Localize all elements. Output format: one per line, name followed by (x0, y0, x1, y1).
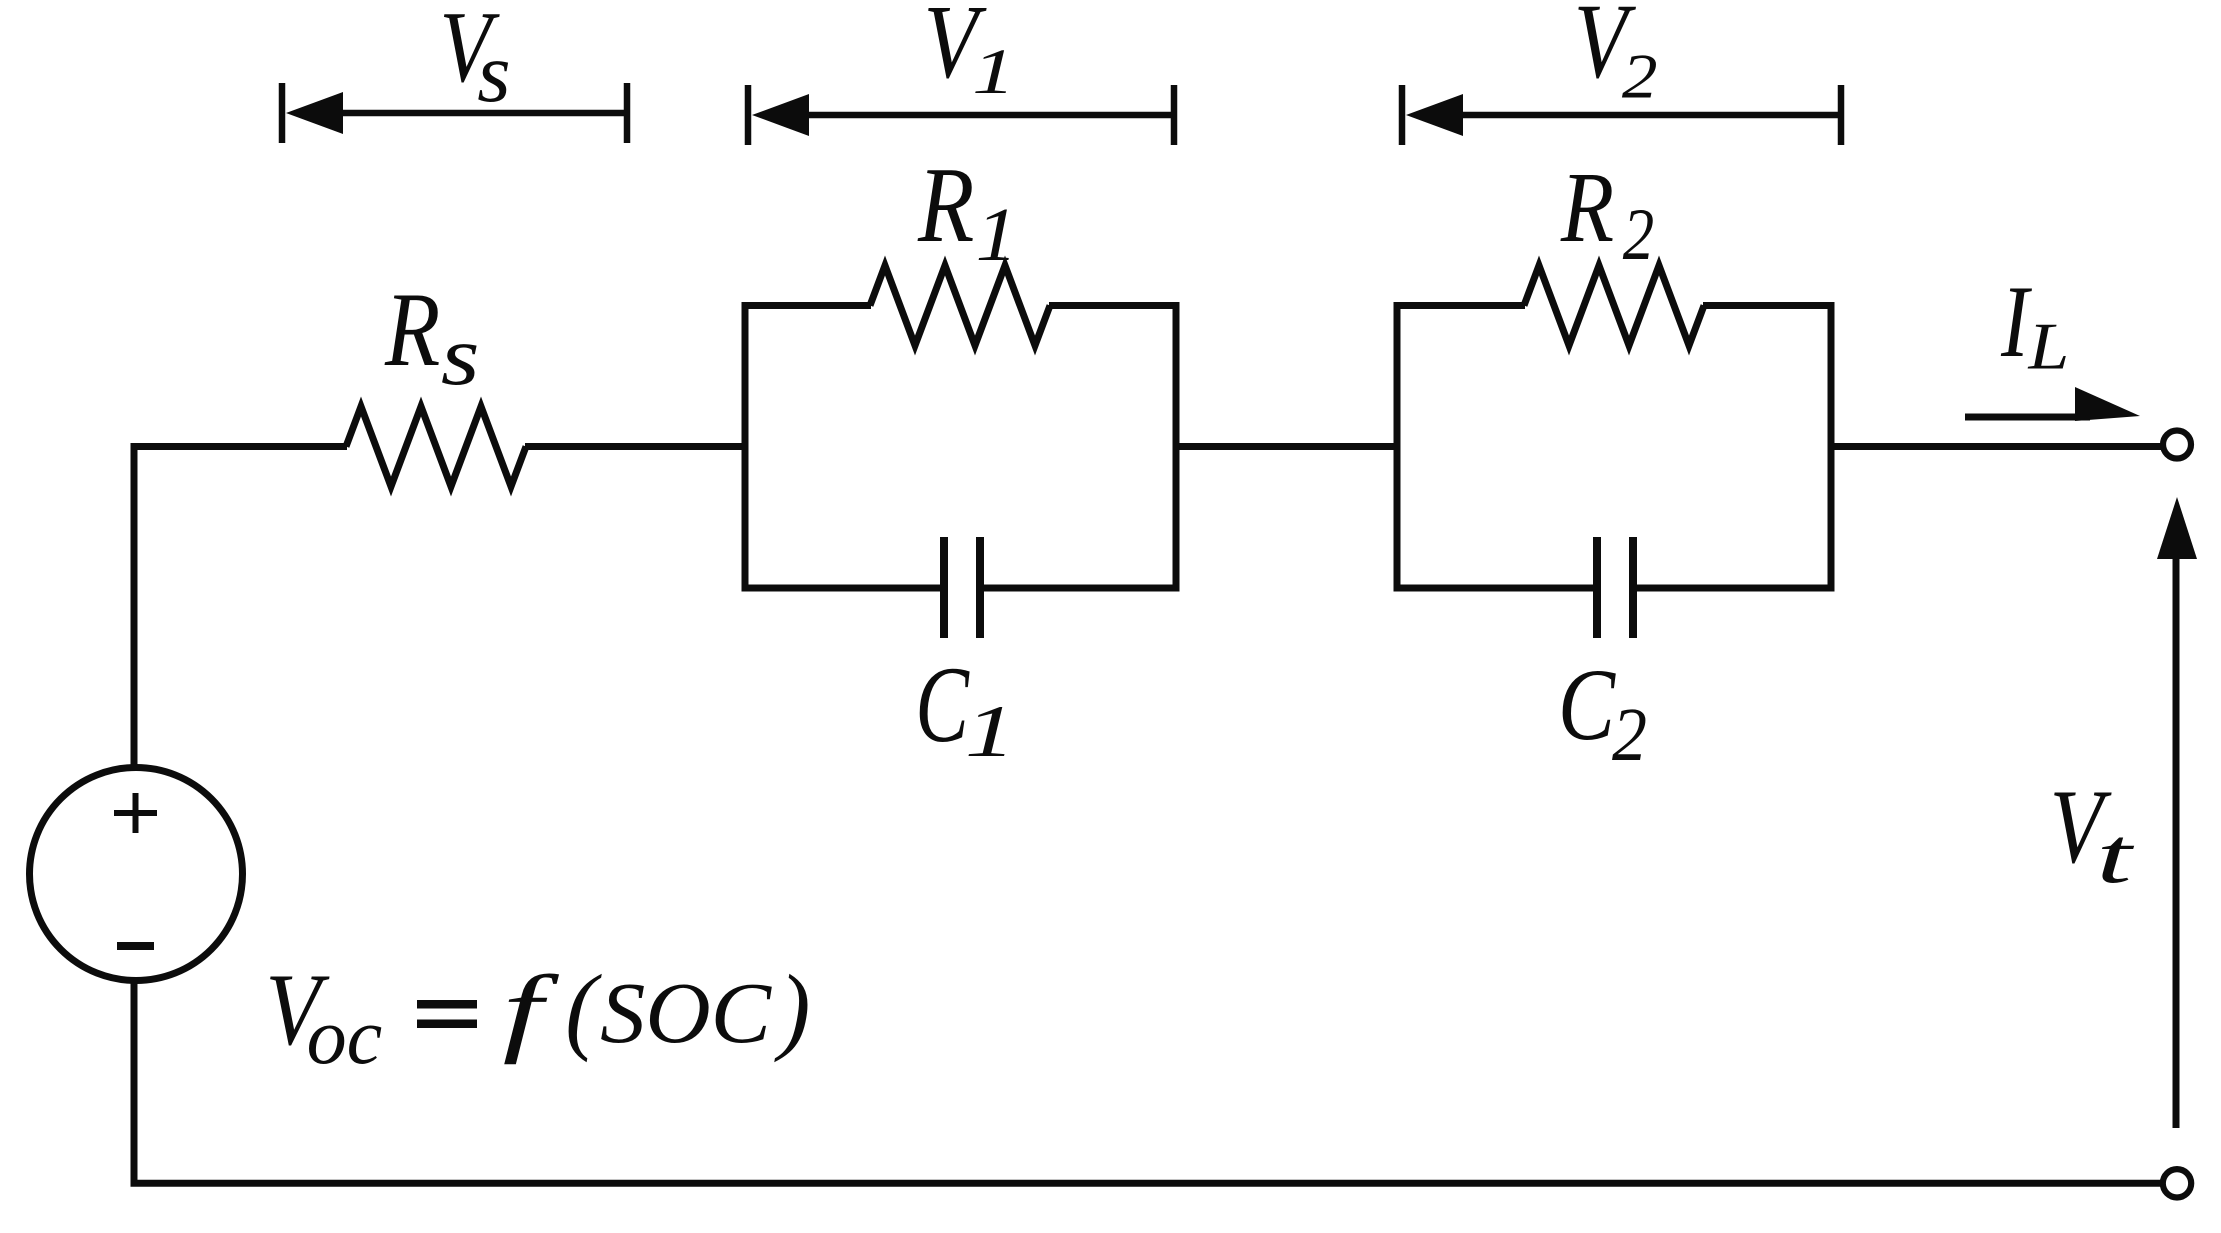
wire: Rs to block 1 (525, 443, 748, 450)
dimension arrow V1: right tick (1171, 85, 1178, 145)
svg-text:s: s (477, 26, 510, 119)
RC block 2: right edge (1828, 302, 1835, 592)
svg-text:oc: oc (307, 993, 383, 1080)
svg-text:(: ( (565, 954, 602, 1063)
svg-text:R: R (917, 145, 974, 264)
svg-text:2: 2 (1623, 193, 1654, 275)
current arrow IL shaft (1965, 414, 2090, 421)
resistor R1 (870, 266, 1050, 346)
svg-text:R: R (384, 271, 440, 388)
capacitor C1 right plate (976, 537, 984, 638)
terminal: top output node (2163, 431, 2191, 459)
svg-text:C: C (915, 643, 969, 765)
dimension arrow V2: head (1406, 94, 1463, 136)
RC block 1: right edge (1173, 302, 1180, 592)
RC block 2: left edge (1394, 302, 1401, 592)
current arrow IL head (2075, 387, 2140, 421)
RC block 1: top edge left segment (742, 302, 871, 309)
voltage arrow Vt shaft (2173, 550, 2180, 1128)
dimension arrow Vs: left tick (279, 83, 286, 143)
RC block 1: left edge (742, 302, 749, 592)
wire: block 1 to block 2 (1175, 443, 1398, 450)
RC block 1: top edge right segment (1049, 302, 1179, 309)
RC block 2: top edge left segment (1394, 302, 1525, 309)
svg-text:t: t (2096, 811, 2134, 899)
RC block 2: bottom edge left segment (1394, 585, 1594, 592)
capacitor C1 left plate (940, 537, 948, 638)
terminal: bottom output node (2163, 1169, 2191, 1197)
svg-text:2: 2 (1622, 41, 1658, 112)
resistor R2 (1524, 266, 1704, 346)
capacitor C2 left plate (1593, 537, 1601, 638)
capacitor C2 right plate (1629, 537, 1637, 638)
dimension arrow V2: shaft (1450, 112, 1841, 119)
wire: top-left horizontal from corner to Rs (131, 443, 348, 450)
dimension arrow V1: left tick (745, 85, 752, 145)
wire: bottom horizontal (131, 1180, 2164, 1187)
dimension arrow V2: left tick (1399, 85, 1406, 145)
RC block 2: bottom edge right segment (1637, 585, 1835, 592)
svg-text:SOC: SOC (600, 966, 773, 1062)
RC block 2: top edge right segment (1703, 302, 1834, 309)
svg-text:1: 1 (965, 690, 1015, 772)
svg-text:): ) (774, 954, 811, 1063)
RC block 1: bottom edge left segment (742, 585, 941, 592)
voltage source minus sign (117, 942, 154, 950)
voltage source plus sign (114, 793, 157, 833)
dimension arrow V2: right tick (1838, 85, 1845, 145)
voltage arrow Vt head (2157, 497, 2197, 559)
svg-text:s: s (441, 310, 480, 404)
wire: left vertical from top wire to source top (131, 444, 138, 769)
dimension arrow Vs: right tick (624, 83, 631, 143)
dimension arrow Vs: shaft (330, 110, 627, 117)
svg-text:1: 1 (976, 193, 1018, 277)
svg-text:2: 2 (1612, 692, 1647, 776)
svg-text:1: 1 (972, 36, 1015, 107)
svg-text:C: C (1558, 649, 1616, 762)
dimension arrow Vs: head (286, 92, 343, 134)
dimension arrow V1: head (752, 94, 809, 136)
wire: block 2 to output terminal (1830, 443, 2164, 450)
resistor Rs (346, 407, 526, 487)
svg-text:R: R (1560, 152, 1614, 263)
voltage source U1 circle (30, 768, 243, 981)
svg-text:I: I (2000, 266, 2032, 380)
dimension arrow V1: shaft (796, 112, 1174, 119)
wire: left vertical from source bottom to bottom wire (131, 980, 138, 1187)
svg-text:L: L (2027, 311, 2069, 384)
equals sign (417, 1000, 477, 1009)
RC block 1: bottom edge right segment (984, 585, 1180, 592)
svg-text:f: f (503, 955, 560, 1065)
